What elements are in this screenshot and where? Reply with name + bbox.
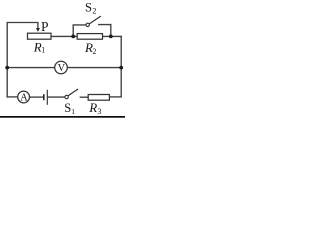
svg-text:S: S: [85, 0, 92, 14]
svg-text:1: 1: [71, 107, 75, 116]
svg-text:R: R: [88, 100, 97, 115]
svg-text:V: V: [58, 63, 66, 74]
svg-text:2: 2: [92, 6, 96, 15]
svg-text:2: 2: [92, 47, 96, 56]
svg-text:P: P: [41, 19, 49, 34]
svg-text:1: 1: [41, 46, 45, 55]
svg-text:3: 3: [97, 107, 101, 116]
svg-text:S: S: [64, 101, 71, 115]
svg-text:A: A: [20, 93, 28, 104]
